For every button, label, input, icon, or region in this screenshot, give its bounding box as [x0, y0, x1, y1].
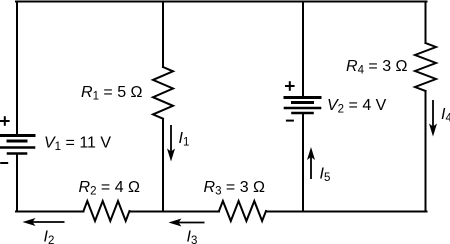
current arrow I2 [23, 218, 65, 226]
wire middle branch upper (top bus to R1) [162, 2, 164, 68]
resistor R2 [84, 201, 130, 221]
svg-text:R3 = 3 Ω: R3 = 3 Ω [204, 179, 266, 198]
current arrow I1 [167, 125, 175, 162]
wire left branch upper (top bus to V1 positive plate) [16, 2, 18, 136]
battery V2 [285, 98, 320, 114]
svg-text:R1 = 5 Ω: R1 = 5 Ω [81, 84, 143, 103]
current arrow I3 [169, 219, 205, 227]
wire V2 branch lower (V2 negative plate to bottom bus) [302, 114, 304, 212]
wire right branch lower (R4 to bottom bus) [425, 91, 427, 212]
wire bottom bus middle segment [130, 211, 220, 213]
wire middle branch lower (R1 to bottom bus) [162, 119, 164, 212]
wire bottom bus left segment [16, 211, 84, 213]
wire bottom bus right segment [266, 211, 427, 213]
polarity minus of V1 [1, 162, 7, 164]
wire left branch lower (V1 negative plate to bottom bus) [16, 154, 18, 212]
current arrow I5 [307, 147, 315, 179]
svg-text:V2 = 4 V: V2 = 4 V [327, 97, 387, 116]
wire V2 branch upper (top bus to V2 positive plate) [302, 2, 304, 98]
polarity minus of V2 [287, 120, 293, 122]
wire right branch upper (top bus to R4) [425, 2, 427, 44]
battery V1 [1, 136, 35, 154]
resistor R4 [415, 43, 436, 91]
polarity plus of V2 [286, 82, 294, 90]
wire top bus [16, 1, 427, 3]
svg-text:R2 = 4 Ω: R2 = 4 Ω [79, 179, 141, 198]
resistor R1 [153, 67, 173, 119]
svg-text:V1 = 11 V: V1 = 11 V [44, 135, 111, 154]
current arrow I4 [429, 100, 437, 137]
polarity plus of V1 [1, 117, 9, 125]
svg-text:R4 = 3 Ω: R4 = 3 Ω [346, 58, 408, 77]
resistor R3 [219, 201, 266, 221]
